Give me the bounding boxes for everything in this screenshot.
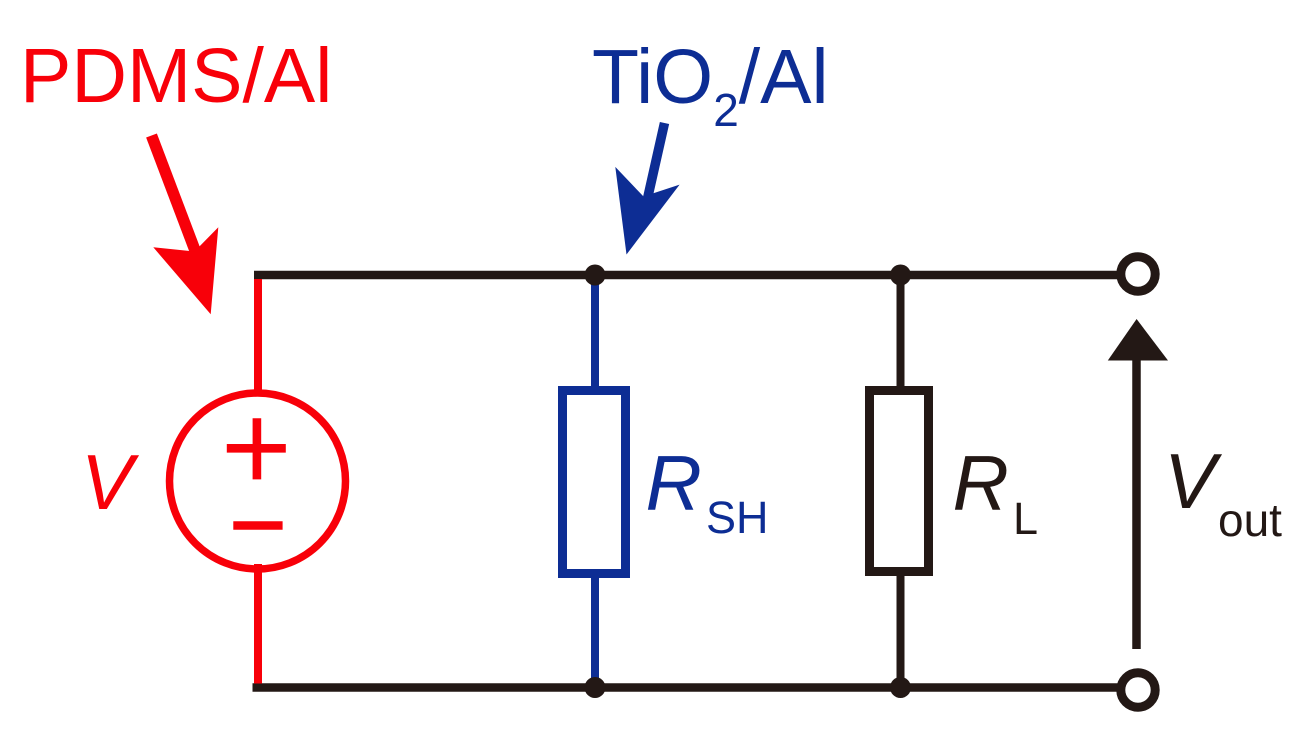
Vout arrowhead <box>1108 319 1168 361</box>
top wire <box>254 271 1119 280</box>
svg-text:SH: SH <box>706 492 769 543</box>
junction dot bottom R_L <box>890 677 911 698</box>
svg-text:PDMS/Al: PDMS/Al <box>20 33 332 119</box>
Vout arrow shaft <box>1132 356 1141 649</box>
red annotation arrow <box>152 136 219 315</box>
svg-text:V: V <box>1164 437 1223 525</box>
svg-text:V: V <box>81 438 140 526</box>
svg-text:R: R <box>953 439 1009 527</box>
bottom wire <box>253 683 1120 692</box>
blue annotation arrow <box>615 123 679 255</box>
resistor R_L body <box>870 391 929 572</box>
junction dot bottom R_SH <box>585 677 606 698</box>
plus sign <box>227 418 286 479</box>
svg-text:R: R <box>646 439 702 527</box>
svg-text:L: L <box>1013 493 1038 544</box>
junction dot top R_L <box>890 265 911 286</box>
R_L branch wire (lower) <box>897 572 905 686</box>
R_SH branch wire (lower) <box>591 574 599 686</box>
output terminal top <box>1121 257 1155 291</box>
red branch wire (upper) <box>254 279 262 398</box>
svg-text:out: out <box>1218 494 1282 546</box>
R_L branch wire (upper) <box>897 277 905 390</box>
minus sign <box>233 521 282 530</box>
voltage source V1 circle <box>170 393 346 569</box>
output terminal bottom <box>1121 673 1155 707</box>
junction dot top R_SH <box>585 265 606 286</box>
resistor R_SH body <box>563 391 626 574</box>
red branch wire (lower) <box>254 564 262 684</box>
R_SH branch wire (upper) <box>591 277 599 390</box>
